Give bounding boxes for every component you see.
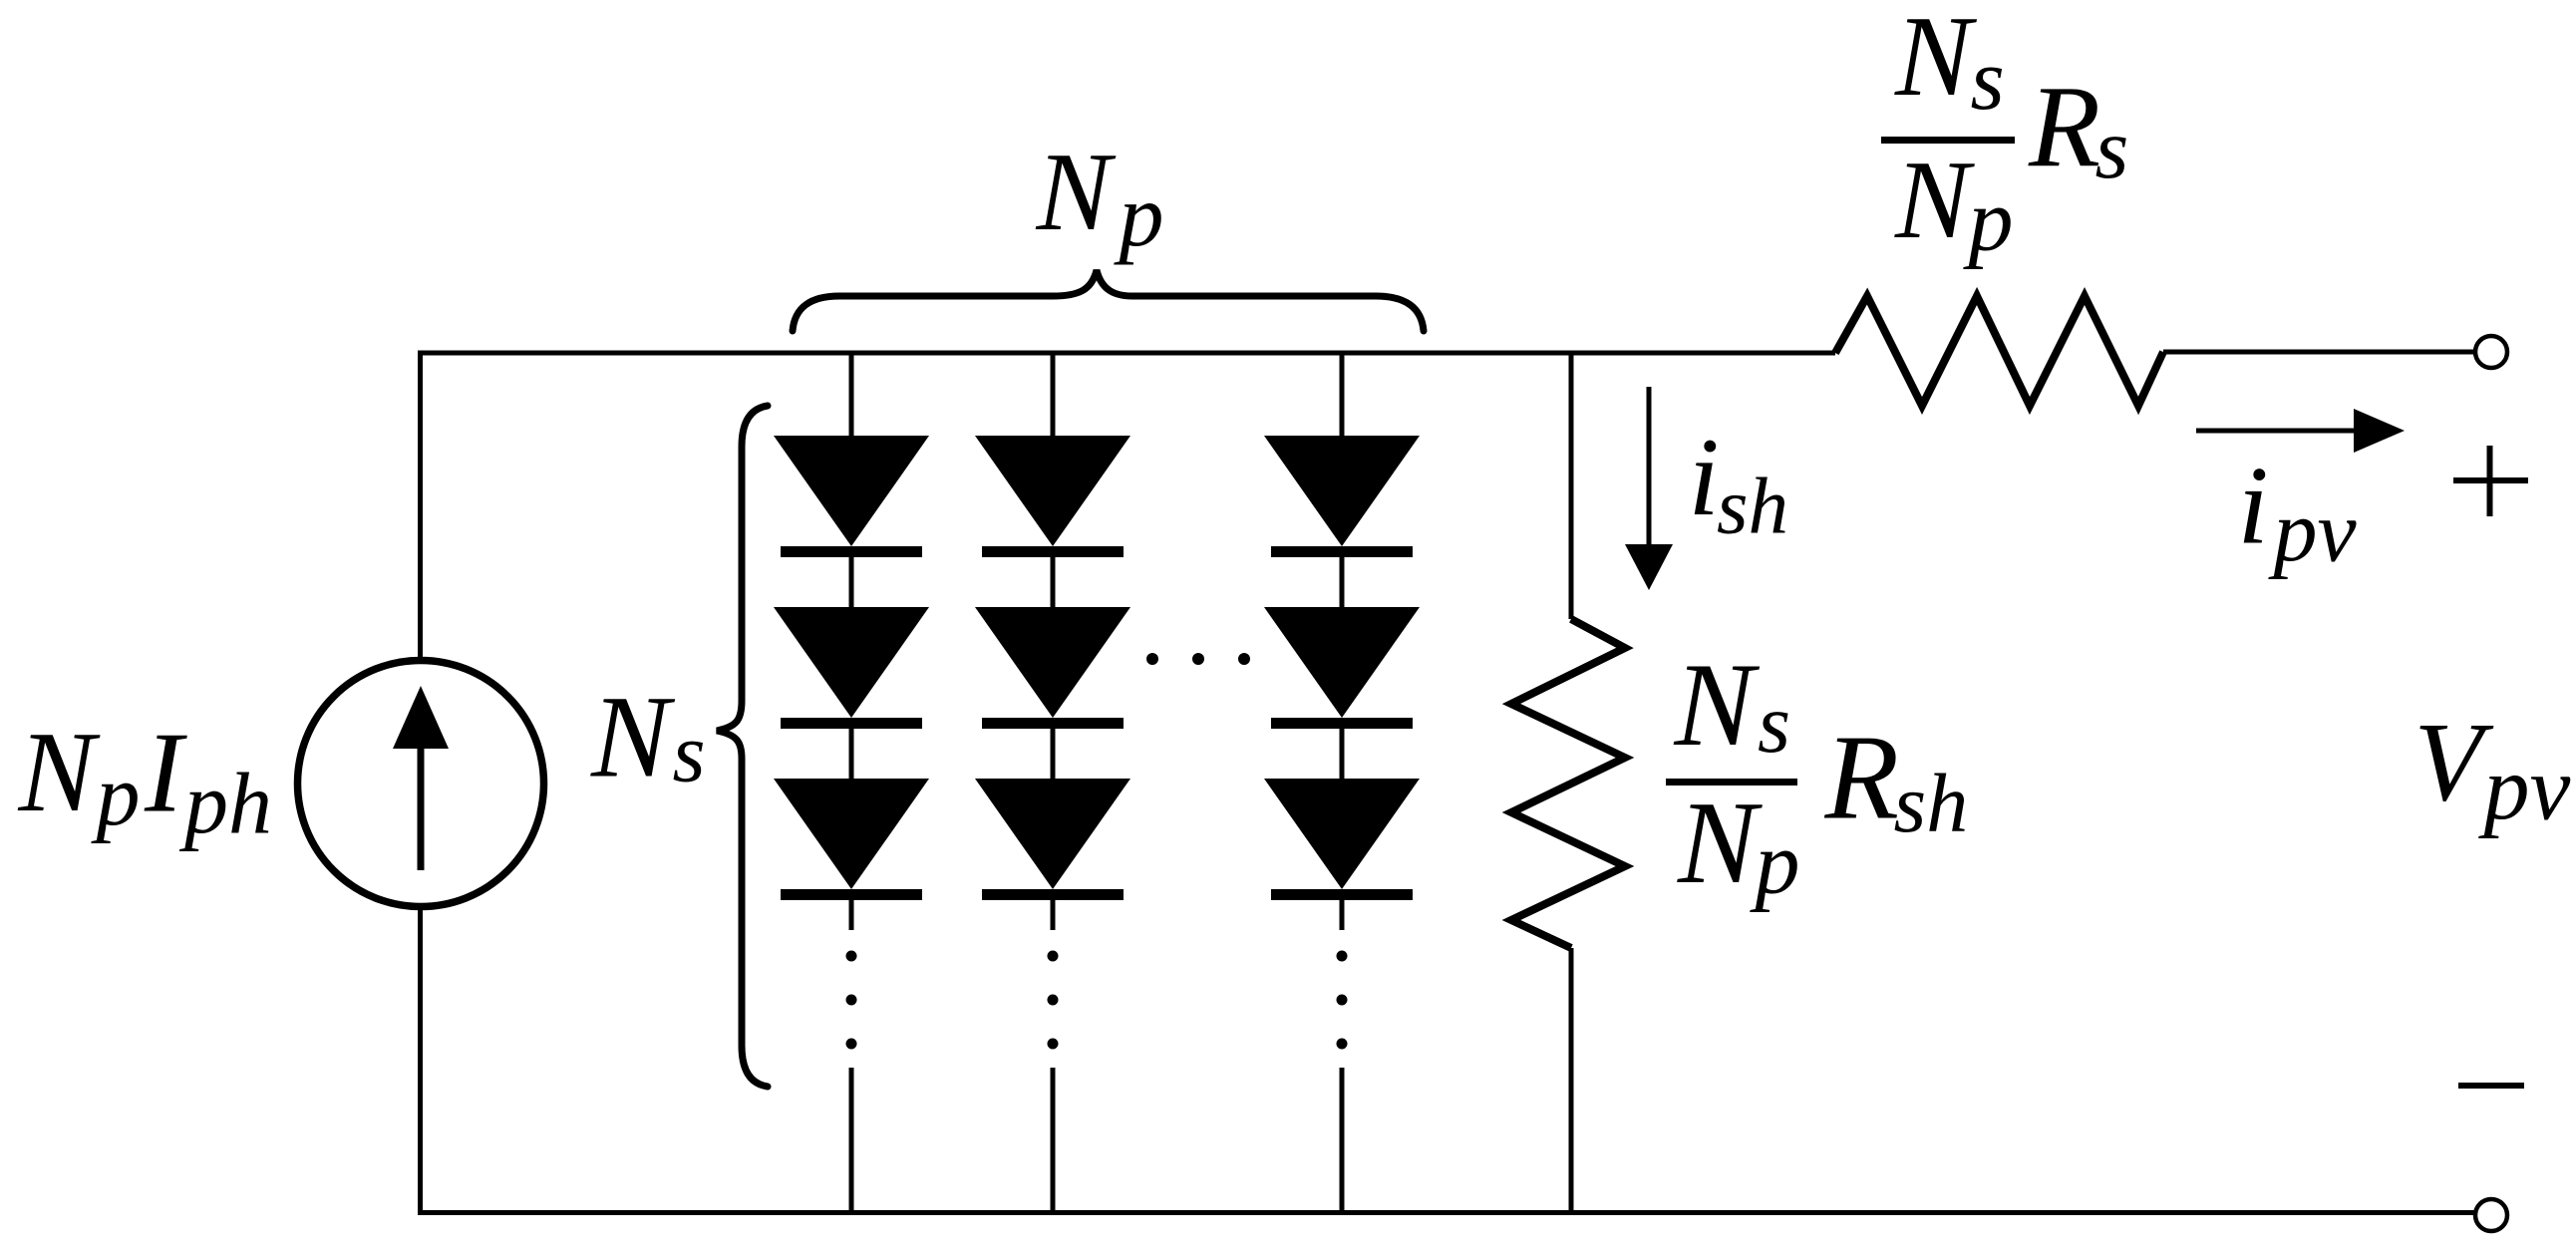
svg-text:N: N: [1894, 139, 1975, 262]
svg-text:pv: pv: [2268, 484, 2358, 581]
svg-text:I: I: [144, 710, 187, 836]
svg-text:N: N: [590, 672, 676, 802]
svg-text:p: p: [1114, 167, 1164, 266]
svg-text:i: i: [2238, 445, 2269, 568]
svg-text:i: i: [1689, 416, 1720, 539]
svg-text:N: N: [1894, 0, 1978, 120]
svg-text:s: s: [1971, 32, 2005, 129]
svg-text:R: R: [2028, 62, 2100, 192]
svg-text:s: s: [673, 707, 706, 800]
svg-text:N: N: [1677, 777, 1763, 908]
svg-text:pv: pv: [2478, 738, 2571, 839]
svg-text:p: p: [1963, 171, 2014, 270]
svg-text:sh: sh: [1717, 462, 1788, 551]
svg-text:sh: sh: [1894, 758, 1969, 850]
svg-text:R: R: [1824, 711, 1900, 845]
svg-text:N: N: [18, 709, 102, 835]
svg-text:N: N: [1036, 131, 1117, 254]
svg-text:s: s: [1758, 677, 1790, 771]
svg-text:ph: ph: [178, 757, 272, 853]
svg-text:V: V: [2415, 701, 2494, 825]
svg-text:N: N: [1674, 638, 1761, 771]
svg-text:s: s: [2095, 100, 2129, 196]
svg-text:p: p: [91, 749, 141, 845]
svg-text:p: p: [1750, 814, 1800, 913]
